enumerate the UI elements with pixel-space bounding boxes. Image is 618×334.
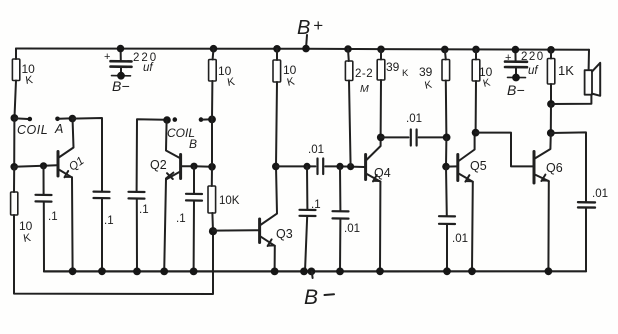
node B+ label <box>297 16 323 39</box>
junction dot ground: Q1 emitter <box>69 267 77 275</box>
svg-text:K: K <box>402 68 409 79</box>
wire: 39K-1 down to Q4 collector node <box>380 80 382 137</box>
junction dot 2.2M tap <box>347 163 354 170</box>
junction dot Q1 base / cap tap <box>40 162 47 169</box>
svg-text:.01: .01 <box>406 113 422 125</box>
capacitor .01 (Q5 base shunt) plates <box>439 215 455 217</box>
resistor 39K (Q4 collector) body <box>377 60 385 81</box>
svg-text:.1: .1 <box>176 213 186 225</box>
svg-text:Q5: Q5 <box>470 159 487 173</box>
junction dot 39K-2 on top wire <box>441 46 449 54</box>
wire: Q1 emitter down to ground bus <box>71 177 74 271</box>
svg-text:.01: .01 <box>592 188 608 200</box>
junction dot ground: Q3 emitter <box>271 268 279 276</box>
svg-text:+: + <box>313 16 323 35</box>
capacitor .1 (Q4 input shunt) value label <box>311 199 321 211</box>
junction dot ground: Q6 emitter <box>545 267 553 275</box>
capacitor 220uf (left) value label <box>133 52 158 74</box>
wire: coil A right stub <box>59 117 70 119</box>
resistor 10K (rail2 middle) value label <box>219 195 240 207</box>
wire: Q3 base wire <box>213 229 259 231</box>
wire: 39K-2 down to cap node <box>445 81 448 138</box>
capacitor .1 (coil B left / Q2 collector) plates <box>129 191 145 193</box>
junction dot Q3 base node <box>209 227 217 235</box>
transistor Q1 base bar <box>57 152 60 177</box>
svg-text:10: 10 <box>19 219 33 233</box>
resistor 2.2M body <box>345 61 352 81</box>
capacitor 220uf (right) value label <box>521 51 545 77</box>
capacitor .1 (Q1 collector) plates <box>94 191 110 193</box>
junction dot ground: cap .1 <box>300 268 308 276</box>
wire: Q6 emitter to ground bus <box>547 181 549 271</box>
junction dot ground: B- tap <box>308 268 316 276</box>
svg-text:39: 39 <box>386 60 400 74</box>
capacitor .1 (Q1 base) plates <box>36 194 52 196</box>
transistor Q5 base bar <box>456 155 459 181</box>
svg-text:K: K <box>226 76 236 89</box>
svg-text:39: 39 <box>419 65 433 79</box>
wire: left rail coil A to Q1 base node <box>13 118 15 167</box>
capacitor .01 (coupling Q4-Q5) plates <box>410 130 412 146</box>
terminal post coil B left <box>173 117 178 122</box>
svg-text:A: A <box>54 122 63 136</box>
node label B- (left cap) <box>112 78 130 94</box>
wire: B+ top rail <box>16 49 589 50</box>
wire: B- dash stroke <box>325 293 335 296</box>
wire: Q2 base to rail <box>181 165 212 168</box>
wire: rail2 10K to Q3 base node <box>211 213 214 231</box>
wire: Q5 base lead <box>446 165 457 167</box>
capacitor 220uf (right) bottom stub <box>515 67 517 77</box>
terminal post coil A left <box>28 117 33 122</box>
wire: ground bus (upper bottom wire) <box>44 270 586 272</box>
capacitor .1 (Q1 base) value label <box>48 211 58 223</box>
svg-text:.01: .01 <box>344 223 360 235</box>
capacitor 220uf (right electrolytic) top stub <box>514 50 516 61</box>
wire: 2.2M top stub <box>347 49 350 61</box>
junction dot coil B left / Q2 collector node <box>163 116 171 124</box>
svg-text:Q3: Q3 <box>276 227 293 241</box>
svg-text:.1: .1 <box>139 204 149 216</box>
junction dot Q4 collector node <box>377 134 385 142</box>
wire: coupling row left segment <box>276 165 316 167</box>
svg-text:.1: .1 <box>311 199 321 211</box>
transistor Q2 ref label <box>150 158 167 172</box>
junction dot at B+ tap <box>302 45 310 53</box>
transistor Q6 collector stroke <box>535 134 551 159</box>
svg-text:uf: uf <box>528 65 539 77</box>
wire: coil A node right to cap branch <box>72 118 102 191</box>
svg-text:K: K <box>286 75 297 89</box>
junction dot ground: Q5 emitter <box>468 267 476 275</box>
wire: left rail to B- lower wire <box>14 215 213 294</box>
svg-text:B: B <box>189 137 197 151</box>
junction dot coil A right / Q1 collector node <box>69 115 77 123</box>
junction dot 1K on top wire <box>547 46 555 54</box>
capacitor .1 (Q1 collector) wire down <box>101 198 103 271</box>
transistor Q2 collector stroke <box>166 121 180 158</box>
wire: rail2 top stub <box>212 49 215 60</box>
node label B- (right cap) <box>507 82 525 98</box>
junction dot ground: cap .01 Q5 <box>443 267 451 275</box>
svg-text:10: 10 <box>283 63 297 77</box>
wire: left rail resistor to coil A <box>15 81 17 118</box>
capacitor .01 (series coupling Q3-Q4) plates <box>316 159 318 175</box>
resistor 10K (rail3) body <box>273 60 281 82</box>
wire: Q6 collector node to output cap branch <box>551 132 586 202</box>
transistor Q3 emitter stroke with arrow <box>260 236 274 245</box>
transistor Q2 base bar <box>179 155 182 179</box>
svg-text:B: B <box>304 286 318 309</box>
node label B- (bottom) <box>304 286 318 309</box>
junction dot Q2 base on rail <box>208 163 216 171</box>
wire: coil B left branch from cap <box>136 199 138 272</box>
resistor 10K (bottom left) body <box>11 192 18 215</box>
svg-text:1K: 1K <box>558 63 574 78</box>
transistor Q5 collector stroke <box>459 133 475 161</box>
wire: 2.2M down to Q4 base node <box>349 81 351 167</box>
resistor 10K (rail3) value label <box>283 63 297 89</box>
wire: 10K-4 top stub <box>475 49 477 59</box>
capacitor 220uf (right) plates <box>505 60 527 63</box>
capacitor 220uf (left) bottom stub <box>120 67 122 76</box>
svg-text:+: + <box>505 52 511 64</box>
capacitor .01 (coupling Q4-Q5) left wire <box>381 136 409 138</box>
junction dot coupling node left <box>272 163 280 171</box>
resistor 10K (Q5 collector) value label <box>479 65 493 90</box>
svg-text:.01: .01 <box>452 233 468 245</box>
wire: left rail down from top wire <box>15 49 17 60</box>
terminal B- of 220uf right with side ticks <box>508 76 526 78</box>
junction dot 10K rail3 on top wire <box>273 45 281 53</box>
transistor Q1 ref label <box>67 155 86 174</box>
capacitor .1 (Q4 input shunt) wires <box>306 166 308 209</box>
resistor 39K (Q5 bias) body <box>442 60 450 81</box>
transistor Q2 emitter stroke with arrow <box>166 172 179 179</box>
transistor Q4 collector stroke <box>366 138 380 160</box>
capacitor .01 (output) wire down <box>585 208 587 272</box>
capacitor .1 (Q1 collector) value label <box>104 215 114 227</box>
wire: rail2 resistor to coil B <box>211 81 213 119</box>
junction dot Q5 base tap <box>442 163 450 171</box>
svg-text:K: K <box>22 232 32 245</box>
transistor Q3 collector stroke <box>260 166 277 225</box>
transistor Q5 ref label <box>470 159 487 173</box>
junction dot ground: Q2 emitter <box>160 268 168 276</box>
svg-text:COIL: COIL <box>17 123 48 137</box>
capacitor .1 (Q2 base) wires <box>193 166 195 193</box>
capacitor 220uf (left electrolytic) top stub <box>120 49 122 61</box>
svg-text:.01: .01 <box>308 144 324 156</box>
capacitor .01 (shunt at Q4 base) wires <box>339 166 341 211</box>
junction dot ground: cap .01 <box>336 268 344 276</box>
transistor Q1 emitter stroke with arrow <box>59 170 72 178</box>
transistor Q5 emitter stroke with arrow <box>459 174 473 182</box>
svg-text:B−: B− <box>112 78 130 94</box>
svg-text:.1: .1 <box>48 211 58 223</box>
svg-text:Q1: Q1 <box>67 155 86 174</box>
terminal post coil B right <box>199 117 204 122</box>
junction dot Q1 base rail <box>10 163 18 171</box>
junction dot Q5 input node <box>443 134 451 142</box>
wire: 39K-2 top stub <box>445 49 446 59</box>
junction dot 220uf left on rail <box>117 45 125 53</box>
transistor Q4 ref label <box>374 166 391 180</box>
capacitor .1 (Q2 base) value label <box>176 213 186 225</box>
wire: top rail right corner down to speaker <box>588 50 590 70</box>
node label COIL A <box>17 122 63 137</box>
capacitor .01 (shunt at Q4 base) value label <box>344 223 360 235</box>
junction dot 10K-4 on top wire <box>472 46 480 54</box>
wire: rail3 resistor down to coupling node <box>276 82 277 166</box>
wire: 39K-1 top stub <box>380 49 382 59</box>
resistor 1K value label <box>558 63 574 78</box>
wire: Q5 input node down to base tap <box>445 137 447 166</box>
wire: 1K bottom to speaker return node <box>550 84 552 104</box>
wire: Q1 base wire from rail <box>14 165 57 167</box>
transistor Q4 emitter stroke with arrow <box>366 174 380 182</box>
junction dot speaker return node <box>547 100 555 108</box>
capacitor .01 (series) value label <box>308 144 324 156</box>
junction dot .1 tap <box>303 163 310 170</box>
resistor 39K (Q4 collector) value label <box>386 60 409 79</box>
polarity + label <box>104 51 110 63</box>
capacitor .1 (Q4 input shunt) plates <box>300 209 316 211</box>
svg-text:B−: B− <box>507 82 525 98</box>
capacitor .1 (coil B left) value label <box>139 204 149 216</box>
svg-text:2-2: 2-2 <box>355 68 373 80</box>
junction dot coil B right on 10K rail <box>208 116 216 124</box>
svg-text:Q2: Q2 <box>150 158 167 172</box>
svg-text:+: + <box>104 51 110 63</box>
wire: 1K top stub <box>550 50 552 59</box>
capacitor .01 (coupling Q4-Q5) value label <box>406 113 422 125</box>
speaker LS1 driver box <box>585 70 592 95</box>
resistor 10K (top left) value label <box>22 62 36 87</box>
svg-text:Q4: Q4 <box>374 166 391 180</box>
capacitor .01 (coupling Q4-Q5) right wire <box>419 136 447 138</box>
junction dot coil A left <box>11 114 19 122</box>
wire: Q5 base tap to shunt cap <box>445 167 448 216</box>
junction dot Q2 base cap tap <box>190 163 197 170</box>
svg-text:K: K <box>424 79 433 92</box>
svg-text:220: 220 <box>521 51 545 63</box>
transistor Q1 collector stroke <box>59 121 74 158</box>
terminal post coil A right <box>55 117 60 122</box>
wire: rail2 Q2 base node to 10K <box>211 167 213 186</box>
wire: left rail down to bottom left resistor <box>13 167 15 192</box>
capacitor 220uf (left) plates <box>111 60 132 63</box>
capacitor .01 (Q5 base shunt) bottom wire <box>446 224 448 271</box>
wire: coil A left stub <box>16 117 28 120</box>
junction dot Q6 collector node <box>547 129 555 137</box>
capacitor .01 (shunt at Q4 base) plates <box>333 210 349 212</box>
wire: speaker return node down to Q6 collector node <box>550 104 552 133</box>
wire: coil B right stub <box>203 118 211 120</box>
transistor Q6 emitter stroke with arrow <box>535 175 549 182</box>
junction dot ground: Q4 emitter <box>376 267 384 275</box>
resistor 10K (rail2 middle) body <box>208 186 216 213</box>
capacitor .01 (output) value label <box>592 188 608 200</box>
svg-text:.1: .1 <box>104 215 114 227</box>
junction dot 220uf right on rail <box>512 46 520 54</box>
polarity + label <box>505 52 511 64</box>
node label COIL B <box>167 126 197 151</box>
resistor 10K (top left) body <box>12 59 19 81</box>
wire: rail3 top stub <box>276 49 278 60</box>
transistor Q4 base bar <box>364 155 367 180</box>
junction dot 2.2M on top wire <box>344 45 352 53</box>
terminal B- of 220uf left with side ticks <box>112 75 131 77</box>
wire: B+ tick <box>306 35 307 49</box>
resistor 2.2M value label <box>355 68 373 95</box>
transistor Q3 base bar <box>258 219 261 243</box>
wire: speaker bottom to return node <box>551 95 591 104</box>
capacitor .1 (Q2 base) plates <box>186 193 202 195</box>
wire: Q2 emitter down to ground bus <box>164 179 166 271</box>
junction dot 39K-1 on top wire <box>377 46 385 54</box>
transistor Q6 base bar <box>533 152 536 184</box>
junction dot ground: cap .1 Q2 base <box>190 268 198 276</box>
resistor 10K (Q5 collector) body <box>472 60 480 82</box>
resistor 10K (rail2 top) value label <box>218 64 236 89</box>
wire: B- tick <box>311 272 314 278</box>
capacitor .01 (Q5 base shunt) value label <box>452 233 468 245</box>
wire: Q5 emitter to ground bus <box>471 182 474 271</box>
junction dot 10K rail 2 on top wire <box>210 45 218 53</box>
resistor 1K body <box>547 59 554 85</box>
svg-text:B: B <box>297 17 310 39</box>
wire: coupling row right segment <box>325 165 364 168</box>
capacitor .01 (output) plates <box>578 201 595 204</box>
wire: Q3 emitter to ground bus <box>274 246 276 272</box>
wire: Q5 collector node to Q6 base <box>476 133 533 167</box>
resistor 39K (Q5 bias) value label <box>419 65 433 92</box>
resistor 10K (bottom left) value label <box>19 219 33 245</box>
svg-text:Q6: Q6 <box>546 161 563 175</box>
transistor Q6 ref label <box>546 161 563 175</box>
wire: rail2 coil B to Q2 base node <box>211 119 213 166</box>
junction dot ground: cap .1 coil B <box>133 268 141 276</box>
svg-text:M: M <box>360 83 369 95</box>
wire: 10K-4 down to Q5 collector node <box>475 81 477 133</box>
transistor Q3 ref label <box>276 227 293 241</box>
svg-text:10K: 10K <box>219 195 240 207</box>
junction dot .01 tap <box>336 163 343 170</box>
junction dot Q5 collector node <box>472 129 480 137</box>
resistor 10K (rail2 top) body <box>209 60 217 82</box>
speaker LS1 horn <box>592 63 600 96</box>
wire: Q4 emitter to ground bus <box>379 182 381 272</box>
junction dot ground: cap .1 Q1 collector <box>98 267 106 275</box>
capacitor .1 (Q1 base to ground) wires <box>43 166 45 195</box>
